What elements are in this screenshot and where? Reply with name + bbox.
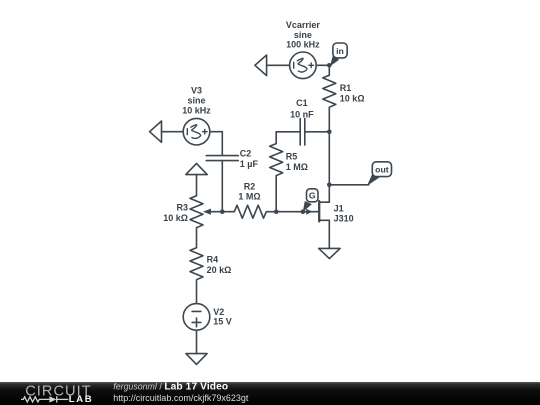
wire ground to Vcarrier [267, 64, 290, 66]
svg-text:in: in [336, 46, 344, 56]
node junction G [301, 209, 306, 214]
svg-text:V2: V2 [213, 307, 224, 317]
ground (left of V3, pointing left) [150, 121, 162, 142]
label Vcarrier sine 100 kHz [286, 20, 321, 50]
ground (below JFET, pointing down) [319, 248, 340, 258]
voltage source V2 (battery) [183, 304, 210, 331]
svg-text:1 MΩ: 1 MΩ [238, 191, 260, 201]
node junction R1/C1 [327, 130, 332, 135]
svg-text:10 kHz: 10 kHz [182, 106, 211, 116]
svg-text:R3: R3 [176, 202, 188, 212]
wire V2 to ground [196, 330, 198, 353]
resistor R4 [190, 248, 203, 304]
wire node out down to JFET drain [320, 185, 329, 202]
wire JFET source to ground [328, 220, 330, 248]
label R5 1 MOhm [286, 151, 308, 172]
svg-text:V3: V3 [191, 85, 202, 95]
svg-text:1 µF: 1 µF [240, 159, 259, 169]
wire V3 to C2 [210, 132, 223, 156]
resistor R1 [323, 65, 336, 132]
svg-text:G: G [309, 191, 316, 201]
svg-text:Vcarrier: Vcarrier [286, 20, 321, 30]
svg-text:fergusonml / Lab 17 Video: fergusonml / Lab 17 Video [113, 382, 228, 392]
svg-text:R2: R2 [244, 182, 256, 192]
wire main column node C1 to node out [328, 132, 330, 185]
capacitor C2 [206, 156, 238, 212]
svg-text:C1: C1 [296, 98, 308, 108]
flag in [330, 43, 347, 66]
svg-text:20 kΩ: 20 kΩ [207, 265, 232, 275]
label R1 10 kOhm [340, 83, 365, 104]
svg-text:LAB: LAB [69, 394, 94, 405]
footer bar [0, 382, 540, 405]
svg-text:10 kΩ: 10 kΩ [163, 213, 188, 223]
label R3 10 kOhm [163, 202, 188, 222]
label V2 15 V [213, 307, 232, 327]
CircuitLab logo resistor and diode line [21, 396, 68, 402]
label C2 1 uF [240, 149, 259, 169]
label C1 10 nF [290, 98, 314, 119]
wire ground to V3 [162, 131, 184, 133]
capacitor C1 [276, 118, 329, 145]
svg-text:R4: R4 [207, 254, 219, 264]
label J1 J310 [334, 203, 354, 223]
svg-text:10 kΩ: 10 kΩ [340, 93, 365, 103]
node junction C2/R3 wiper/R2 [220, 209, 225, 214]
ground (below V2, pointing down) [186, 354, 207, 365]
wire R3 to R4 [196, 228, 198, 248]
voltage source V3 [183, 118, 210, 145]
svg-text:sine: sine [187, 95, 205, 105]
label R2 1 MOhm [238, 182, 260, 202]
svg-text:J1: J1 [334, 203, 344, 213]
svg-text:100 kHz: 100 kHz [286, 40, 320, 50]
svg-text:15 V: 15 V [213, 317, 232, 327]
flag out [367, 162, 392, 186]
node junction out [327, 183, 332, 188]
svg-text:10 nF: 10 nF [290, 109, 314, 119]
flag G [303, 189, 318, 212]
ground (above R3, pointing up) [186, 163, 207, 174]
svg-text:R5: R5 [286, 151, 298, 161]
wire Vcarrier to node in [316, 64, 329, 66]
svg-text:out: out [375, 164, 389, 174]
wire gate node to JFET gate [276, 211, 318, 213]
voltage source Vcarrier [290, 52, 317, 79]
node junction R2/R5 [274, 209, 279, 214]
label R4 20 kOhm [207, 254, 232, 275]
svg-text:J310: J310 [334, 214, 354, 224]
ground (left of Vcarrier, pointing left) [255, 55, 267, 76]
resistor R5 [270, 132, 283, 212]
resistor R2 [222, 205, 276, 218]
svg-text:C2: C2 [240, 149, 252, 159]
svg-text:http://circuitlab.com/ckjfk79x: http://circuitlab.com/ckjfk79x623gt [113, 393, 249, 403]
wire ground to R3 [196, 175, 198, 196]
transistor J1 (N-JFET) [306, 201, 329, 221]
svg-text:sine: sine [294, 30, 312, 40]
potentiometer R3 [190, 196, 222, 228]
wire node out to out flag [329, 184, 369, 186]
svg-text:1 MΩ: 1 MΩ [286, 162, 308, 172]
node junction at in [327, 63, 332, 68]
label V3 sine 10 kHz [182, 85, 211, 115]
svg-text:R1: R1 [340, 83, 352, 93]
